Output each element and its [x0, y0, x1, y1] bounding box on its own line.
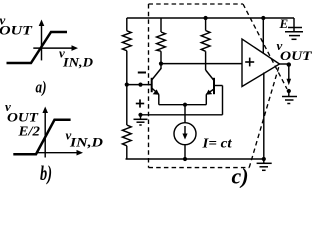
resistor R1 — [122, 18, 131, 85]
minus input terminal dot — [138, 83, 142, 87]
node dot Q1 collector — [159, 62, 163, 66]
transistor Q1 — [152, 64, 161, 105]
resistor R3 — [201, 18, 210, 70]
ground at output — [282, 91, 297, 104]
svg-text:IN,D: IN,D — [62, 56, 93, 70]
label minus — [138, 72, 146, 74]
graph b) transfer curve — [13, 120, 70, 154]
node dot R3 top — [204, 16, 208, 20]
svg-text:c): c) — [232, 164, 249, 189]
resistor R2 — [157, 18, 166, 64]
dashed diagonal top-right to output ground — [243, 4, 287, 89]
svg-text:OUT: OUT — [0, 24, 34, 38]
graph a) transfer curve — [7, 32, 68, 63]
resistor R4 — [122, 85, 131, 159]
output wire — [280, 63, 289, 65]
node A: base wire left — [125, 83, 129, 87]
wire plus node to Q2 base — [141, 114, 223, 116]
wire base Q1 — [127, 84, 152, 86]
node dot bottom right — [262, 157, 266, 161]
dashed box top edge — [149, 3, 244, 5]
node plus terminal — [138, 113, 142, 117]
top supply wire — [127, 17, 294, 19]
node dot emitters — [183, 103, 187, 107]
vOUT arrow down — [287, 67, 292, 86]
ground under E — [285, 32, 303, 40]
svg-text:I= ct: I= ct — [201, 136, 232, 151]
svg-text:b): b) — [40, 161, 52, 185]
svg-text:OUT: OUT — [7, 111, 40, 125]
node dot above output ground — [287, 89, 291, 93]
battery E plate — [288, 18, 302, 32]
current source I — [174, 105, 196, 159]
svg-text:OUT: OUT — [280, 48, 313, 63]
bottom wire — [126, 158, 264, 160]
svg-text:E: E — [279, 16, 289, 31]
node dot current source bottom — [183, 157, 187, 161]
graph b) x-axis — [36, 150, 83, 156]
ground bottom right — [257, 159, 272, 170]
dashed diagonal bottom-right to op-amp apex — [249, 65, 279, 168]
op-amp negative supply pin to ground — [263, 73, 265, 160]
ground at plus input — [134, 115, 148, 125]
graph b) y-axis — [42, 107, 48, 158]
transistor Q2 — [206, 70, 223, 115]
dashed box left edge — [148, 4, 150, 168]
node dot supply pin — [261, 16, 265, 20]
op-amp positive supply pin — [262, 18, 264, 53]
svg-text:a): a) — [36, 78, 47, 97]
emitter coupling wire — [159, 104, 207, 106]
svg-text:E/2: E/2 — [17, 124, 40, 139]
wire collector to op-amp — [161, 63, 242, 65]
svg-text:IN,D: IN,D — [69, 136, 103, 150]
dashed box bottom edge — [149, 167, 250, 169]
op-amp U1 — [242, 39, 280, 87]
label plus — [136, 99, 144, 107]
graph a) y-axis — [39, 20, 45, 61]
graph a) x-axis — [33, 45, 78, 51]
node vOUT — [287, 62, 291, 66]
